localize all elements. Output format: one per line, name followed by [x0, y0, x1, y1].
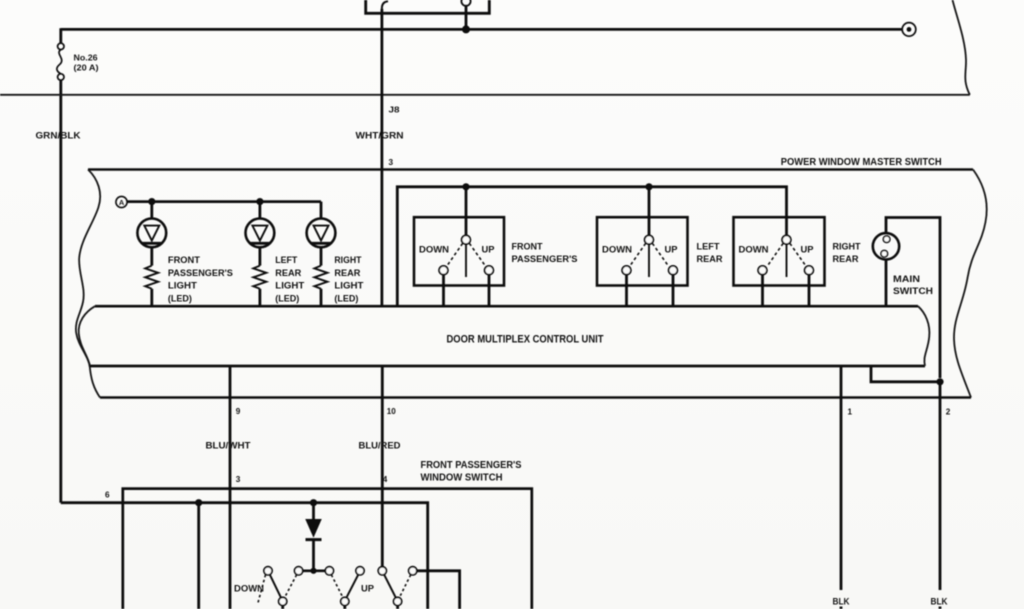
svg-text:REAR: REAR: [833, 253, 859, 264]
relay coil terminal circle: [461, 0, 470, 6]
svg-text:LEFT: LEFT: [697, 241, 720, 252]
svg-text:9: 9: [236, 407, 241, 416]
svg-text:LIGHT: LIGHT: [168, 281, 197, 291]
node: junction dot diode anode tap: [310, 499, 317, 506]
label: FRONT PASSENGER'S (switch name): [512, 241, 578, 265]
wire: WHT/GRN vertical from relay down to control unit: [380, 9, 383, 306]
svg-text:REAR: REAR: [275, 268, 301, 278]
svg-text:4: 4: [383, 475, 388, 484]
wire: relay coil terminal down to horizontal feed: [465, 6, 468, 30]
connector G (circled terminal): [902, 23, 916, 37]
node: junction dot LED1 tap: [148, 198, 155, 205]
svg-text:POWER WINDOW MASTER SWITCH: POWER WINDOW MASTER SWITCH: [781, 156, 942, 168]
svg-text:UP: UP: [801, 244, 814, 255]
svg-text:RIGHT: RIGHT: [334, 255, 361, 265]
wire: horizontal feed from fuse to connector G: [61, 28, 902, 31]
switch arms (solid poles): [270, 575, 396, 598]
fuse No.26 (20 A): [57, 43, 64, 80]
svg-text:SWITCH: SWITCH: [893, 285, 933, 296]
svg-text:FRONT: FRONT: [168, 255, 200, 265]
node: junction dot front passenger common tap: [462, 183, 469, 190]
wire: LED feed from node A across lamp tops: [127, 200, 321, 203]
switch arms (dashed alternate positions): [258, 575, 411, 605]
svg-text:LEFT: LEFT: [275, 255, 297, 265]
svg-text:BLU/WHT: BLU/WHT: [206, 440, 251, 451]
wire: R3 to control unit: [320, 289, 323, 306]
wire: GRN/BLK vertical run from fuse to bottom corner: [59, 80, 62, 503]
svg-text:RIGHT: RIGHT: [833, 241, 861, 252]
wire: SW2 down contact to control unit: [625, 275, 628, 307]
switch SW2 left rear (in master switch): [597, 217, 688, 285]
svg-text:DOWN: DOWN: [419, 244, 449, 255]
node: junction dot left rear common tap: [645, 183, 652, 190]
power window master switch outline: torn right edge: [954, 170, 987, 398]
svg-text:REAR: REAR: [697, 253, 723, 264]
dash panel torn right edge: [953, 0, 970, 95]
wire: SW1 down contact to control unit: [442, 275, 445, 307]
node: junction dot pin2 net: [936, 378, 943, 385]
door multiplex control unit: torn left edge: [79, 306, 95, 366]
svg-text:LIGHT: LIGHT: [334, 281, 363, 291]
wire: control unit pin 1 to BLK: [840, 366, 843, 590]
svg-text:FRONT PASSENGER'S: FRONT PASSENGER'S: [421, 460, 522, 471]
label: fuse No.26 (20 A): [74, 54, 99, 73]
door multiplex control unit U1: top edge: [95, 305, 918, 308]
diode D4: [306, 503, 322, 571]
label: RIGHT REAR (switch name): [833, 241, 861, 265]
node: junction dot at relay coil wire / feed wire: [462, 25, 470, 33]
svg-text:UP: UP: [665, 244, 678, 255]
LED D3 right rear light: [307, 202, 336, 266]
wire: SW3 down contact to control unit: [761, 275, 764, 307]
wire: GRN/BLK across window switch, corner down: [61, 503, 428, 609]
label: DOWN / UP (SW1): [419, 244, 495, 255]
svg-text:3: 3: [389, 158, 394, 167]
switch SW1 front passenger's (in master switch): [414, 217, 504, 285]
node A (circled letter): [116, 196, 127, 207]
label: FRONT PASSENGER'S LIGHT (LED): [168, 255, 233, 303]
svg-text:BLK: BLK: [931, 597, 948, 607]
svg-text:PASSENGER'S: PASSENGER'S: [168, 268, 233, 278]
svg-text:REAR: REAR: [334, 268, 360, 278]
svg-text:LIGHT: LIGHT: [275, 281, 304, 291]
switch SW3 right rear (in master switch): [734, 217, 825, 285]
svg-text:6: 6: [105, 491, 110, 500]
label: LEFT REAR LIGHT (LED): [275, 255, 304, 303]
power window master switch outline: top edge: [88, 168, 973, 171]
svg-text:BLU/RED: BLU/RED: [359, 440, 401, 451]
node: junction dot diode cathode on bus: [310, 568, 316, 574]
resistor R2 (LED2 series): [253, 266, 266, 289]
svg-text:WHT/GRN: WHT/GRN: [356, 130, 404, 141]
wire: SW3 up contact to control unit: [808, 275, 811, 307]
wire: contact bus c2-c3: [299, 569, 330, 572]
svg-text:No.26: No.26: [74, 54, 98, 63]
svg-text:GRN/BLK: GRN/BLK: [36, 130, 81, 141]
wire: SW2 up contact to control unit: [672, 275, 675, 307]
wire: pivot stubs off page: [283, 606, 398, 609]
wire: front passenger switch common drop: [465, 187, 468, 236]
node: junction dot LED2 tap: [256, 198, 263, 205]
svg-text:(LED): (LED): [334, 293, 358, 303]
svg-text:1: 1: [848, 407, 853, 416]
wire: c6 contact over and down: [417, 571, 460, 609]
svg-text:DOOR MULTIPLEX CONTROL UNIT: DOOR MULTIPLEX CONTROL UNIT: [447, 334, 604, 346]
label: RIGHT REAR LIGHT (LED): [334, 255, 363, 303]
main switch S1 (circled switch): [873, 233, 899, 259]
label: FRONT PASSENGER'S WINDOW SWITCH: [421, 460, 522, 484]
wire: feed corner down into fuse: [59, 28, 62, 43]
label: DOWN / UP (SW2): [602, 244, 678, 255]
relay contact terminal (hook): [382, 1, 388, 9]
label: DOWN / UP (SW3): [739, 244, 814, 255]
door multiplex control unit: torn right edge: [918, 306, 929, 366]
door multiplex control unit: bottom edge: [90, 365, 925, 368]
switch contacts row (window switch): [264, 567, 417, 575]
front passenger's window switch outline: [123, 489, 532, 609]
wire: control unit L-link to pin 2 net: [871, 366, 940, 382]
wire: pin 2 net down to BLK: [939, 382, 942, 590]
svg-text:(LED): (LED): [168, 293, 192, 303]
resistor R1 (LED1 series): [145, 266, 158, 289]
wire: R2 to control unit: [258, 289, 261, 306]
svg-text:BLK: BLK: [833, 597, 850, 607]
wire: main switch feed (up over to pin 2 net): [886, 218, 940, 379]
svg-text:(LED): (LED): [275, 293, 299, 303]
dash panel boundary line: [0, 94, 970, 96]
svg-text:WINDOW SWITCH: WINDOW SWITCH: [421, 473, 503, 484]
wire: SW1 up contact to control unit: [488, 275, 491, 307]
svg-text:UP: UP: [482, 244, 495, 255]
wire: main switch to control unit: [885, 260, 888, 307]
svg-text:FRONT: FRONT: [512, 241, 543, 252]
svg-text:MAIN: MAIN: [893, 273, 920, 284]
svg-text:(20 A): (20 A): [74, 64, 99, 73]
wire: branch down from GRN/BLK junction: [197, 503, 200, 609]
resistor R3 (LED3 series): [314, 266, 327, 289]
svg-text:UP: UP: [361, 583, 374, 594]
label: LEFT REAR (switch name): [697, 241, 723, 265]
svg-text:J8: J8: [389, 106, 401, 115]
label: MAIN SWITCH: [893, 273, 933, 296]
wire: R1 to control unit: [150, 289, 153, 306]
power window master switch outline: torn left edge: [76, 170, 100, 398]
svg-text:10: 10: [387, 407, 396, 416]
relay box (power window relay, cut off at top): [366, 0, 490, 13]
node: junction dot GRN/BLK branch: [195, 499, 202, 506]
power window master switch outline: bottom edge: [100, 396, 971, 399]
svg-text:DOWN: DOWN: [739, 244, 769, 255]
svg-text:A: A: [119, 198, 125, 207]
svg-text:2: 2: [946, 407, 951, 416]
svg-text:PASSENGER'S: PASSENGER'S: [512, 253, 578, 264]
wire: BLU/WHT from control unit pin 9 down through window switch: [229, 366, 232, 609]
wire: BLK stub left below label: [840, 607, 843, 609]
svg-text:3: 3: [236, 475, 241, 484]
wire: left rear switch common drop: [648, 187, 651, 236]
switch pole pivots (lower circles): [279, 597, 402, 605]
wire: switch common feed (control unit up and across switch commons): [397, 187, 786, 306]
LED D1 front passenger's light: [137, 202, 166, 266]
wire: BLK stub right below label: [939, 607, 942, 609]
svg-text:DOWN: DOWN: [602, 244, 632, 255]
LED D2 left rear light: [246, 202, 275, 266]
svg-text:DOWN: DOWN: [234, 583, 264, 594]
wire: BLU/RED from control unit pin 10 down to switch contact: [381, 366, 384, 567]
